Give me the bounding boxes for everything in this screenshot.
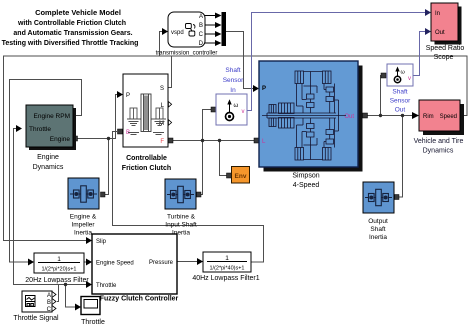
arrow into clutch P — [117, 91, 123, 98]
svg-text:1/(2*pi*40)s+1: 1/(2*pi*40)s+1 — [209, 266, 244, 272]
svg-text:Out: Out — [344, 114, 354, 120]
svg-text:Shaft: Shaft — [225, 67, 240, 74]
arrow into fuzzy Throttle — [86, 281, 92, 288]
left clutch hatched packs — [269, 105, 276, 114]
svg-text:Engine: Engine — [50, 136, 71, 143]
svg-text:Throttle: Throttle — [29, 126, 51, 133]
port marker: simpson lower input — [254, 138, 259, 143]
svg-text:1: 1 — [225, 255, 229, 262]
arrow into throttle scope — [75, 304, 81, 311]
wire: throttle net — [14, 129, 59, 302]
svg-text:B: B — [199, 23, 203, 29]
svg-text:4-Speed: 4-Speed — [293, 182, 320, 189]
arrow into engine throttle — [16, 125, 22, 132]
svg-text:Throttle: Throttle — [96, 283, 117, 289]
wire: vspd branch up — [160, 32, 163, 57]
interior gear schematic — [262, 71, 346, 160]
svg-text:transmission_controller: transmission_controller — [156, 51, 218, 57]
wire: throttle to fuzzy — [59, 284, 88, 286]
arrow into 40Hz filter — [197, 258, 203, 265]
wire: engine rpm to 20Hz filter — [10, 80, 82, 263]
port marker: engine dynamics Engine output — [73, 136, 78, 141]
svg-text:Simpson: Simpson — [292, 173, 319, 180]
svg-text:S: S — [160, 86, 164, 92]
wire: turbine inertia / shaft sensor in vertical — [201, 110, 211, 195]
arrow into vspd — [162, 28, 168, 35]
svg-text:Engine: Engine — [37, 154, 59, 161]
svg-text:P: P — [262, 86, 266, 92]
Output Shaft Inertia — [363, 182, 394, 241]
wire: clutch F to Simpson — [172, 140, 254, 142]
svg-text:and Automatic Transmission Gea: and Automatic Transmission Gears. — [13, 30, 132, 37]
svg-text:B: B — [47, 300, 51, 306]
svg-text:v: v — [408, 76, 411, 82]
svg-text:Vehicle and Tire: Vehicle and Tire — [414, 138, 464, 145]
wire: throttle to scope — [66, 285, 77, 308]
port marker: output shaft inertia output — [395, 195, 400, 200]
wire: clutch S branch down — [168, 56, 172, 88]
svg-text:Output: Output — [368, 218, 388, 225]
svg-text:Speed Ratio: Speed Ratio — [426, 45, 465, 52]
arrow into fuzzy Slip — [86, 237, 92, 244]
port marker: simpson Out output — [363, 113, 368, 118]
svg-text:C: C — [199, 32, 204, 38]
svg-text:Inertia: Inertia — [74, 230, 92, 237]
port marker: engine impeller inertia output — [101, 192, 106, 197]
svg-text:with Controllable Friction Clu: with Controllable Friction Clutch — [17, 20, 126, 27]
svg-text:P: P — [126, 93, 130, 99]
svg-text:Speed: Speed — [440, 114, 457, 120]
unconnected chevrons L, M — [168, 102, 171, 126]
svg-text:vspd: vspd — [171, 30, 184, 36]
svg-text:Sensor: Sensor — [390, 98, 411, 105]
junction: clutch F wire to turbine inertia — [201, 139, 204, 142]
svg-text:Friction Clutch: Friction Clutch — [122, 165, 171, 172]
upper linkage — [296, 84, 298, 107]
svg-text:In: In — [230, 87, 236, 94]
wire: pressure net 40Hz to clutch B — [113, 132, 264, 263]
svg-text:Throttle: Throttle — [81, 319, 105, 326]
svg-text:40Hz Lowpass Filter1: 40Hz Lowpass Filter1 — [192, 275, 259, 282]
Engine & Impeller Inertia — [68, 178, 99, 237]
svg-text:Out: Out — [395, 107, 406, 114]
svg-text:Impeller: Impeller — [71, 222, 95, 229]
svg-text:Turbine &: Turbine & — [167, 214, 196, 221]
svg-text:A: A — [47, 293, 51, 299]
svg-text:Dynamics: Dynamics — [423, 148, 454, 155]
svg-text:Env: Env — [235, 173, 247, 180]
wire: simpson out to rim — [364, 115, 413, 117]
svg-text:1: 1 — [57, 256, 61, 263]
junction: throttle wire to throttle scope — [64, 283, 67, 286]
svg-text:Pressure: Pressure — [149, 260, 174, 266]
wheels — [295, 71, 304, 84]
wire: output shaft inertia branch — [399, 116, 403, 198]
wire: engine out to clutch P — [76, 95, 118, 139]
svg-text:20Hz Lowpass Filter: 20Hz Lowpass Filter — [25, 277, 89, 284]
arrow into 20Hz filter — [28, 259, 34, 266]
port marker: env input — [227, 173, 232, 178]
lower linkage (mirror) — [296, 125, 298, 148]
svg-text:Shaft: Shaft — [392, 89, 407, 96]
wire: shaft sensor in v to scope In — [247, 13, 426, 111]
wire: fuzzy pressure to 40Hz — [177, 261, 198, 263]
svg-text:Throttle Signal: Throttle Signal — [13, 315, 59, 322]
clutch icon — [127, 94, 166, 135]
svg-text:Rim: Rim — [423, 114, 434, 120]
svg-text:ω: ω — [401, 70, 406, 76]
wire: env branch — [220, 141, 227, 176]
port marker: clutch B input — [118, 129, 123, 134]
svg-text:B: B — [126, 130, 130, 136]
wire: shaft sensor out v to scope Out — [413, 32, 426, 76]
junction: simpson out wire to shaft sensor out — [379, 114, 382, 117]
junction: clutch F wire to Env — [218, 139, 221, 142]
svg-text:ω: ω — [234, 103, 239, 109]
svg-text:Complete Vehicle Model: Complete Vehicle Model — [35, 8, 121, 17]
port marker: shaft sensor in input — [211, 107, 216, 112]
arrow into rim — [412, 112, 419, 119]
svg-text:In: In — [435, 11, 440, 17]
svg-text:Engine RPM: Engine RPM — [34, 113, 71, 120]
svg-text:Controllable: Controllable — [126, 155, 167, 162]
junction: simpson out wire to output shaft inertia — [401, 114, 404, 117]
svg-text:D: D — [199, 41, 204, 47]
port marker: clutch F output — [168, 138, 173, 143]
svg-text:Shaft: Shaft — [370, 226, 385, 233]
arrow into fuzzy Engine Speed — [86, 259, 92, 266]
svg-text:Sensor: Sensor — [223, 77, 244, 84]
svg-text:Scope: Scope — [434, 54, 454, 61]
port marker: turbine inertia output — [197, 192, 202, 197]
svg-text:Engine &: Engine & — [70, 214, 97, 221]
svg-text:Engine Speed: Engine Speed — [96, 261, 134, 267]
svg-text:Slip: Slip — [96, 239, 107, 245]
arrow into scope Out — [425, 28, 431, 35]
junction: engine wire to impeller inertia — [107, 137, 110, 140]
svg-text:Fuzzy Clutch Controller: Fuzzy Clutch Controller — [100, 296, 179, 303]
wire: mux output to Simpson P — [226, 32, 253, 89]
svg-text:Input Shaft: Input Shaft — [165, 222, 197, 229]
arrow into simpson P — [253, 85, 259, 92]
svg-text:A: A — [199, 14, 203, 20]
wire: vehicle speed long feedback net — [4, 56, 468, 241]
svg-text:v: v — [242, 109, 245, 115]
svg-text:Testing with Diversified Throt: Testing with Diversified Throttle Tracki… — [2, 40, 139, 47]
svg-text:C: C — [47, 307, 52, 313]
wire: 20Hz filter to fuzzy engine speed — [84, 261, 87, 263]
svg-text:Inertia: Inertia — [369, 234, 387, 241]
Turbine & Input Shaft Inertia — [165, 179, 197, 237]
svg-text:F: F — [160, 139, 164, 145]
wire: shaft sensor out branch — [380, 76, 383, 116]
svg-text:Out: Out — [435, 30, 445, 36]
svg-text:1/(2*pi*20)s+1: 1/(2*pi*20)s+1 — [41, 267, 76, 273]
arrow into scope In — [425, 9, 431, 16]
port marker: shaft sensor out input — [381, 73, 386, 78]
svg-text:Dynamics: Dynamics — [33, 164, 64, 171]
wire: engine impeller inertia branch — [105, 139, 109, 195]
